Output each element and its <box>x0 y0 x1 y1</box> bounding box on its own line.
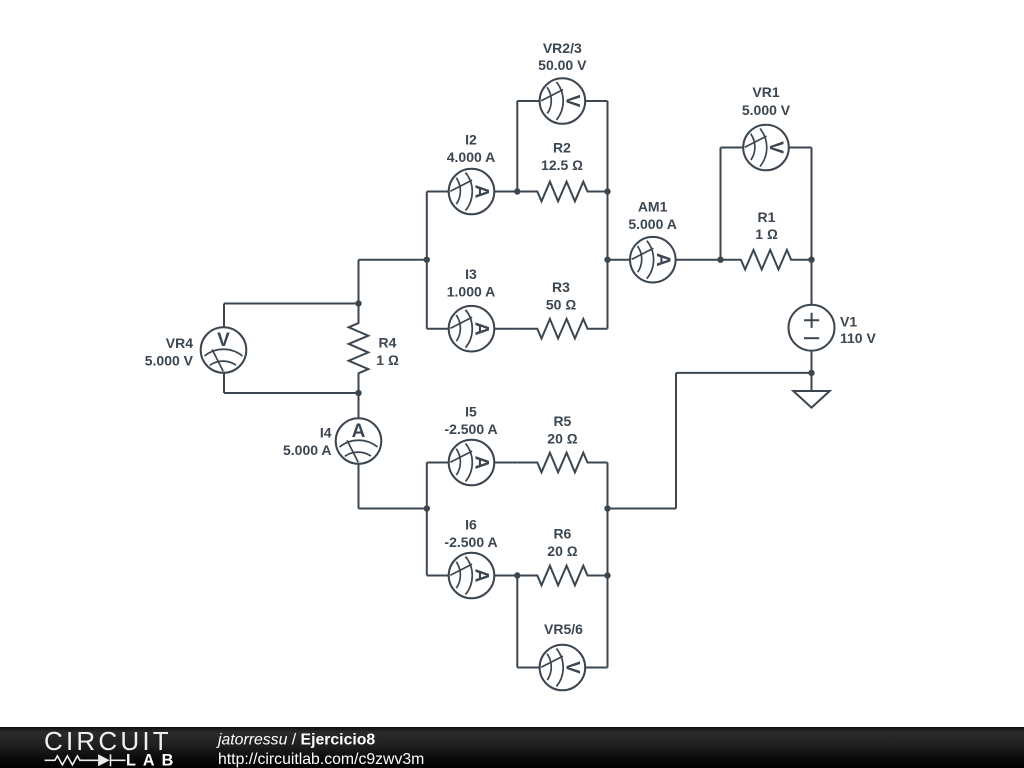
wire <box>494 575 517 577</box>
wire <box>358 260 360 304</box>
ammeter I3 <box>449 306 495 352</box>
svg-text:I3: I3 <box>465 266 477 282</box>
wire <box>359 508 427 510</box>
node at rail/AM1 branch <box>424 257 430 263</box>
wire <box>676 259 721 261</box>
svg-text:1 Ω: 1 Ω <box>376 352 399 368</box>
voltmeter VR5/6 <box>540 645 586 691</box>
node at R1 left <box>717 257 723 263</box>
wire <box>359 259 427 261</box>
svg-text:VR2/3: VR2/3 <box>543 40 582 56</box>
wire <box>676 372 812 374</box>
ammeter I6 <box>449 553 495 599</box>
svg-text:VR4: VR4 <box>166 335 193 351</box>
wire <box>224 392 359 394</box>
node at R6 left <box>514 572 520 578</box>
wire <box>789 147 812 149</box>
wire <box>608 259 631 261</box>
wire <box>811 260 813 305</box>
ammeter I5 <box>449 440 495 486</box>
svg-text:V: V <box>765 141 786 154</box>
resistor R6 <box>517 566 607 586</box>
wire <box>720 148 722 260</box>
node at R5 branch <box>604 505 610 511</box>
svg-text:I6: I6 <box>465 517 477 533</box>
wire <box>608 508 677 510</box>
wire <box>223 304 225 328</box>
node at R2 left <box>514 188 520 194</box>
svg-text:R2: R2 <box>553 140 571 156</box>
node at I4 branch <box>424 505 430 511</box>
svg-text:-2.500 A: -2.500 A <box>444 534 497 550</box>
voltmeter VR1 <box>743 125 789 171</box>
svg-text:jatorressu / Ejercicio8: jatorressu / Ejercicio8 <box>216 732 375 749</box>
svg-text:VR5/6: VR5/6 <box>544 621 583 637</box>
svg-text:R6: R6 <box>553 526 571 542</box>
wire <box>516 576 518 668</box>
node at VR4 top <box>355 300 361 306</box>
ammeter I2 <box>449 169 495 215</box>
svg-text:50 Ω: 50 Ω <box>546 297 576 313</box>
resistor R4 <box>349 303 369 393</box>
svg-text:I2: I2 <box>465 132 477 148</box>
svg-text:5.000 A: 5.000 A <box>283 442 332 458</box>
svg-text:50.00 V: 50.00 V <box>538 57 587 73</box>
svg-text:R4: R4 <box>379 335 397 351</box>
voltmeter VR2/3 <box>540 78 586 124</box>
footer bar <box>0 727 1024 768</box>
svg-text:A: A <box>471 569 492 583</box>
wire <box>585 667 607 669</box>
svg-text:4.000 A: 4.000 A <box>447 149 496 165</box>
svg-text:I4: I4 <box>320 425 332 441</box>
node at ground junction <box>808 370 814 376</box>
wire <box>427 191 449 193</box>
ground <box>793 391 829 408</box>
node at R1 right <box>808 257 814 263</box>
resistor R3 <box>517 319 607 339</box>
wire <box>358 393 360 418</box>
voltage source V1 <box>789 305 835 351</box>
svg-text:R3: R3 <box>552 279 570 295</box>
resistor R1 <box>721 250 811 270</box>
svg-text:20 Ω: 20 Ω <box>547 543 577 559</box>
svg-text:R1: R1 <box>758 209 776 225</box>
wire <box>721 147 744 149</box>
svg-text:AM1: AM1 <box>638 199 668 215</box>
svg-text:110 V: 110 V <box>840 330 876 346</box>
wire <box>494 328 517 330</box>
wire <box>607 463 609 668</box>
wire <box>427 328 449 330</box>
wire <box>517 667 539 669</box>
svg-text:1.000 A: 1.000 A <box>447 284 496 300</box>
wire <box>223 373 225 393</box>
svg-text:LAB: LAB <box>126 752 180 768</box>
wire <box>494 191 517 193</box>
wire <box>427 462 449 464</box>
svg-text:V: V <box>562 661 583 674</box>
svg-text:V1: V1 <box>840 314 857 330</box>
svg-text:12.5 Ω: 12.5 Ω <box>541 157 583 173</box>
logo resistor-diode squiggle <box>45 754 126 766</box>
wire <box>427 575 449 577</box>
wire <box>426 463 428 576</box>
node at AM1 left <box>604 257 610 263</box>
svg-text:20 Ω: 20 Ω <box>547 431 577 447</box>
node at VR4 bottom <box>355 390 361 396</box>
wire <box>516 101 518 192</box>
svg-text:A: A <box>652 253 673 267</box>
ammeter AM1 <box>630 237 676 283</box>
svg-text:5.000 V: 5.000 V <box>145 353 194 369</box>
svg-text:R5: R5 <box>553 413 571 429</box>
svg-text:-2.500 A: -2.500 A <box>444 421 497 437</box>
svg-text:5.000 A: 5.000 A <box>628 216 677 232</box>
resistor R5 <box>517 453 607 473</box>
wire <box>585 100 607 102</box>
wire <box>426 192 428 329</box>
svg-text:A: A <box>471 322 492 336</box>
wire <box>675 373 677 509</box>
svg-text:A: A <box>352 421 366 442</box>
wire <box>811 351 813 392</box>
wire <box>517 100 539 102</box>
voltmeter VR4 <box>201 327 247 373</box>
svg-text:5.000 V: 5.000 V <box>742 102 791 118</box>
ammeter I4 <box>336 418 382 464</box>
svg-text:A: A <box>471 456 492 470</box>
svg-text:V: V <box>562 95 583 108</box>
wire <box>811 148 813 260</box>
wire <box>607 101 609 329</box>
svg-text:http://circuitlab.com/c9zwv3m: http://circuitlab.com/c9zwv3m <box>218 751 424 768</box>
resistor R2 <box>517 182 607 202</box>
svg-text:I5: I5 <box>465 404 477 420</box>
svg-text:A: A <box>471 185 492 199</box>
svg-text:1 Ω: 1 Ω <box>755 226 778 242</box>
node at R6 right <box>604 572 610 578</box>
svg-text:V: V <box>217 330 230 351</box>
node at R2 right <box>604 188 610 194</box>
wire <box>494 462 517 464</box>
wire <box>358 464 360 509</box>
svg-text:VR1: VR1 <box>752 84 779 100</box>
wire <box>224 303 359 305</box>
